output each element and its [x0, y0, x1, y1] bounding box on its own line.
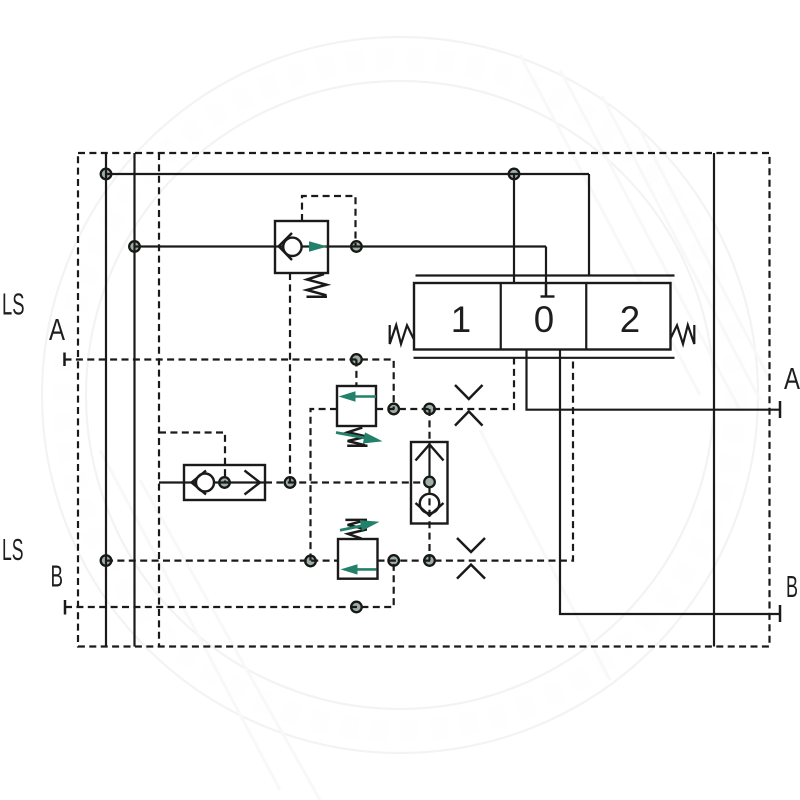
junction nodes [101, 169, 520, 613]
directional valve spring left [390, 325, 414, 344]
wire second supply line through CV1 [135, 245, 547, 247]
node LS-A branch [351, 354, 362, 365]
wire LS-A from valve [376, 358, 514, 410]
wire top supply line [106, 173, 589, 175]
node CV2 pilot [219, 477, 230, 488]
wire CV2 outlet to CV3 [265, 481, 425, 483]
check valve CV1 internals [279, 233, 328, 260]
node LS-B left branch [305, 556, 316, 567]
node LS-B rail start [101, 555, 112, 566]
wire vertical to valve top right [588, 174, 590, 276]
check valve CV2 internals [192, 471, 261, 495]
check valve CV3 internals [416, 445, 444, 561]
node CV3 top join [424, 404, 435, 415]
svg-text:LS: LS [2, 287, 25, 322]
directional valve center plug T [541, 283, 555, 297]
svg-text:B: B [51, 559, 64, 594]
node second supply [129, 241, 140, 252]
port tick A left [63, 353, 66, 367]
relief valve RV1 body [337, 386, 376, 426]
relief valve RV2 spring [345, 520, 367, 539]
port tick A right [779, 401, 782, 418]
wire CV2 pilot branch [159, 433, 225, 483]
wire LS-B to left port [65, 561, 394, 608]
svg-text:0: 0 [534, 299, 554, 340]
svg-text:2: 2 [620, 299, 640, 340]
wire CV3 top connection [428, 409, 430, 442]
wire port B line [560, 350, 780, 615]
wire pump rail vertical P1 [105, 153, 107, 647]
node CV3 bottom join [424, 555, 435, 566]
directional valve DCV body [414, 283, 671, 350]
svg-text:LS: LS [2, 532, 24, 567]
node CV3 side port [424, 477, 435, 488]
relief valve RV2 spring arrow [340, 520, 380, 531]
inner dashed boundary vertical [158, 153, 160, 647]
wire LS-A to left port [65, 360, 394, 410]
directional valve spring right [670, 325, 694, 344]
svg-text:A: A [784, 361, 800, 396]
wire CV1 drain down [289, 273, 291, 483]
relief valve RV2 body [338, 539, 378, 579]
node CV1 outlet [351, 241, 362, 252]
component boxes (white fill) [184, 221, 671, 579]
node valve top [509, 169, 520, 180]
check valve CV2 body [184, 465, 265, 500]
wire CV3 internal line [428, 442, 430, 477]
node LS-B line dot [351, 602, 362, 613]
wire pump rail vertical P2 [133, 153, 135, 647]
coupling symbol upper [455, 385, 483, 426]
check valve CV1 body [275, 221, 328, 273]
port tick B left [64, 600, 67, 615]
check valve CV1 spring [307, 274, 328, 297]
wire CV1 pilot loop [302, 196, 356, 247]
wire LS-B rail left [106, 559, 338, 561]
relief valve RV1 internals [339, 391, 377, 401]
relief valve RV2 internals [341, 564, 377, 574]
wire vertical into valve center [545, 247, 547, 297]
wire LS-B rail right [378, 358, 574, 561]
node RV1 outlet [388, 404, 399, 415]
coupling symbol lower [457, 538, 485, 579]
node RV2 outlet [388, 555, 399, 566]
svg-text:1: 1 [451, 299, 471, 340]
node CV1 drain join [285, 477, 296, 488]
svg-text:A: A [49, 312, 65, 347]
wire CV2 inlet line [159, 481, 265, 483]
wire RV1 top pilot [355, 360, 357, 387]
node top supply [101, 169, 112, 180]
svg-text:B: B [786, 569, 798, 604]
wire dashed pilot lines [65, 153, 770, 647]
relief valve RV1 spring arrow [336, 432, 383, 443]
relief valve RV1 spring [347, 428, 367, 446]
wire tank rail vertical right [713, 153, 715, 647]
outer dashed frame [78, 153, 770, 647]
wire solid lines [106, 153, 780, 647]
port tick B right [779, 605, 782, 622]
wire port A line [527, 350, 781, 410]
directional valve position digits [451, 299, 640, 340]
check valve CV3 body [411, 442, 448, 524]
wire RV1 left to LS-B rail [311, 409, 338, 561]
wire vertical to valve port [513, 174, 515, 283]
directional valve frame lines [414, 276, 675, 358]
